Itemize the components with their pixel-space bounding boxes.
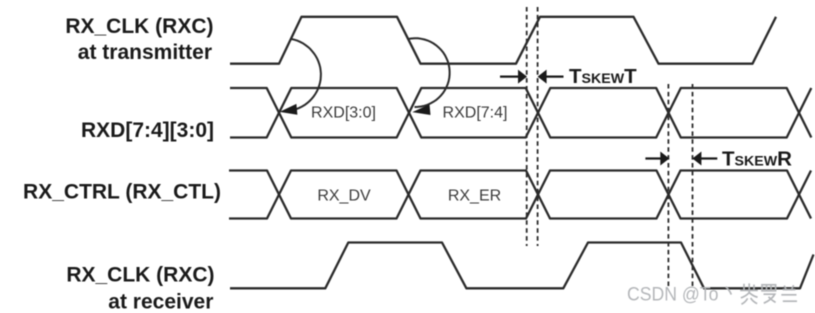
dashed line at clock edge for TSKEWT [526, 7, 528, 246]
svg-text:RXD[3:0]: RXD[3:0] [311, 105, 376, 122]
wire RX_CLK at transmitter waveform [230, 17, 776, 64]
svg-text:RX_CLK (RXC): RX_CLK (RXC) [65, 15, 213, 38]
label TSKEWT [569, 65, 792, 171]
wire RX_CTRL upper zigzag [229, 171, 811, 219]
arrowhead TSKEWR left pointing right [660, 152, 669, 166]
dun mark [726, 287, 732, 295]
svg-text:CSDN @To: CSDN @To [627, 284, 719, 306]
svg-text:at receiver: at receiver [108, 291, 213, 313]
arc arrow from first clock rising edge to RXD crossover [285, 39, 321, 111]
arrow line TSKEWT right [546, 75, 564, 77]
svg-text:RXD[7:4]: RXD[7:4] [443, 104, 508, 121]
arrow line TSKEWT left [500, 75, 519, 77]
svg-text:RX_ER: RX_ER [448, 187, 501, 204]
watermark CJK glyphs drawn as strokes [726, 283, 797, 304]
arrow line TSKEWR left [645, 157, 661, 159]
svg-text:RX_CLK (RXC): RX_CLK (RXC) [66, 264, 214, 287]
dashed line at clock edge for TSKEWR [692, 84, 694, 289]
arrow line TSKEWR right [701, 157, 718, 159]
svg-text:RX_DV: RX_DV [317, 187, 371, 204]
wire RXD bus upper zigzag [230, 88, 811, 138]
svg-text:TSKEWT: TSKEWT [569, 65, 637, 88]
arrowhead TSKEWT right pointing left [538, 70, 547, 84]
arrowhead of first arc [280, 104, 298, 115]
glyph luo [762, 285, 776, 303]
svg-text:TSKEWR: TSKEWR [722, 148, 792, 171]
svg-text:at transmitter: at transmitter [78, 41, 212, 64]
arrowhead TSKEWT left pointing right [518, 70, 527, 84]
wire RXD bus lower zigzag [230, 88, 811, 138]
dashed line at data edge for TSKEWR [667, 84, 669, 289]
arrowhead of second arc [412, 104, 430, 115]
wire RX_CTRL lower zigzag [229, 171, 811, 219]
arrowhead TSKEWR right pointing left [692, 152, 701, 166]
dashed line at data edge for TSKEWT [537, 7, 539, 246]
arc arrow from first clock falling edge to RXD crossover [408, 38, 450, 107]
glyph zi (purple) [740, 283, 758, 304]
svg-text:RX_CTRL (RX_CTL): RX_CTRL (RX_CTL) [23, 181, 221, 204]
watermark CSDN @To text [627, 284, 719, 306]
wire RX_CLK at receiver waveform [230, 243, 814, 289]
svg-text:RXD[7:4][3:0]: RXD[7:4][3:0] [81, 119, 214, 142]
glyph lan [781, 285, 797, 301]
